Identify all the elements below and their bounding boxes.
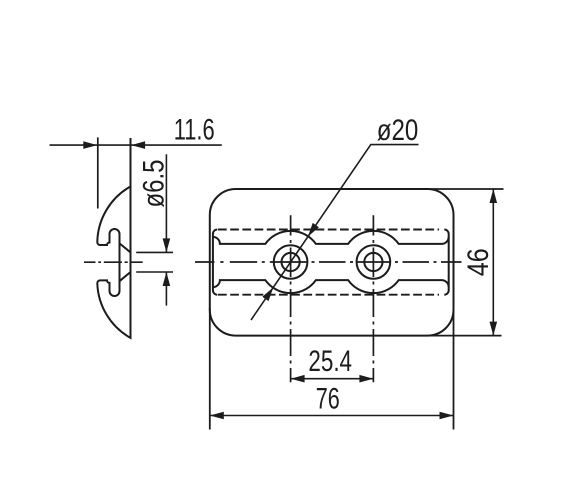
countersink cone upper edge <box>120 243 131 252</box>
svg-text:ø20: ø20 <box>377 114 419 147</box>
dimension 11.6 line <box>50 144 222 146</box>
dimension 25.4 arrow right <box>359 375 373 383</box>
dimension 76 extension line right <box>453 308 455 430</box>
dimension ø6.5 line upper segment <box>165 154 167 252</box>
dimension ø6.5 line lower segment <box>165 272 167 306</box>
dimension 11.6 extension line left <box>97 137 99 208</box>
dimension ø6.5 arrow up <box>163 272 171 286</box>
dimension 76 line <box>210 415 454 417</box>
dimension 46 arrow up <box>490 189 498 203</box>
top view hidden slot edge lower (dashed) <box>218 294 439 296</box>
dimension 76 extension line left <box>209 308 211 430</box>
dimension 11.6 arrow left <box>83 141 97 149</box>
top view horizontal centerline <box>195 261 462 263</box>
dimension 25.4 line <box>291 378 374 380</box>
right hole bore circle <box>364 253 382 271</box>
right hole vertical centerline <box>372 215 374 382</box>
dimension ø6.5 extension tick upper <box>136 251 173 253</box>
dimension 46 line <box>492 189 494 336</box>
dimension 25.4 arrow left <box>291 375 305 383</box>
svg-text:25.4: 25.4 <box>308 345 352 378</box>
countersink cone lower edge <box>120 272 131 281</box>
ø20 leader arrow upper <box>308 223 319 237</box>
left hole counterbore circle <box>274 245 308 279</box>
svg-text:11.6: 11.6 <box>174 114 215 147</box>
side view centerline <box>84 261 143 263</box>
left hole bore circle <box>282 253 300 271</box>
side view outline <box>97 187 130 338</box>
svg-text:76: 76 <box>316 383 340 416</box>
dimension ø6.5 arrow down <box>163 238 171 252</box>
dimension 76 arrow right <box>440 412 454 420</box>
dimension 76 arrow left <box>210 412 224 420</box>
dimension 11.6 arrow right <box>131 141 145 149</box>
ø20 leader line <box>251 145 419 320</box>
slot right end cap <box>444 230 448 295</box>
top view outer rounded rectangle <box>210 189 454 336</box>
ø20 leader arrow lower <box>262 287 273 301</box>
svg-text:46: 46 <box>462 248 495 276</box>
inner pocket outline with boss arcs <box>213 231 449 293</box>
left hole vertical centerline <box>290 215 292 382</box>
slot left end cap <box>213 230 217 295</box>
right hole counterbore circle <box>357 245 391 279</box>
top view hidden slot edge upper (dashed) <box>218 229 439 231</box>
dimension 46 arrow down <box>490 322 498 336</box>
dimension 46 extension line bottom <box>428 335 502 337</box>
svg-text:ø6.5: ø6.5 <box>138 160 171 208</box>
dimension 11.6 extension line right (merges with side view right face) <box>130 138 132 338</box>
dimension 46 extension line top <box>428 188 504 190</box>
dimension ø6.5 extension tick lower <box>136 271 173 273</box>
